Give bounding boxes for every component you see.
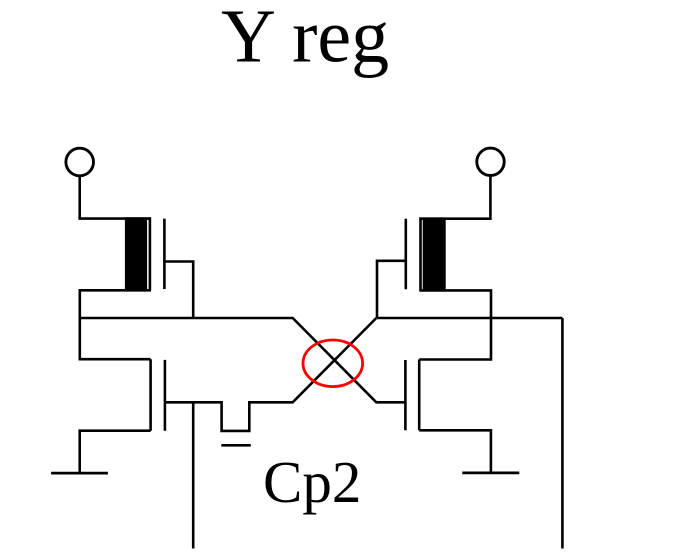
capacitor Cp2 bottom plate (221, 444, 251, 447)
wire: M2 gate tap to right output node (377, 261, 406, 318)
wire: right output node across to crossing (377, 317, 562, 320)
annotation ellipse (red) around crossing node (303, 340, 363, 387)
wire: left output node to right NMOS gate (crossing diagonal) (80, 318, 405, 402)
transistor M3 (left NMOS) channel line (149, 359, 152, 431)
wire: right circle stem + PMOS M2 source wire (419, 176, 490, 219)
wire: M3 source to ground (80, 431, 151, 472)
transistor M2 channel line (419, 217, 422, 290)
wire: right bit-line output going down (561, 318, 564, 549)
ground symbol left (51, 472, 108, 475)
wire: left circle stem + PMOS M1 source wire (80, 176, 151, 219)
terminal circle right (PMOS M2 source) (477, 148, 504, 175)
transistor M1 gate line (163, 219, 166, 289)
wire: M1 gate tap to output node (164, 262, 193, 319)
svg-text:Y reg: Y reg (221, 0, 389, 79)
wire: M1 drain + left rail down to M3 drain (80, 290, 151, 359)
transistor M3 gate line (164, 360, 167, 431)
transistor M4 (right NMOS) channel line (418, 360, 421, 431)
transistor M1 channel line (149, 217, 152, 290)
transistor M4 gate line (404, 360, 407, 430)
terminal circle left (PMOS M1 source) (66, 148, 94, 176)
wire: M4 source to ground (419, 430, 491, 471)
transistor M2 gate line (404, 219, 407, 290)
wire: right output diagonal to left NMOS gate through Cp2 (165, 318, 376, 431)
transistor M1 (left PMOS) channel bar (filled) (125, 217, 147, 290)
wire: left bit-line output going down (192, 402, 195, 548)
wire: M2 drain + right rail down to M4 drain (419, 290, 491, 359)
svg-text:Cp2: Cp2 (263, 449, 361, 515)
transistor M2 (right PMOS) channel bar (filled) (423, 217, 446, 290)
ground symbol right (462, 471, 519, 474)
